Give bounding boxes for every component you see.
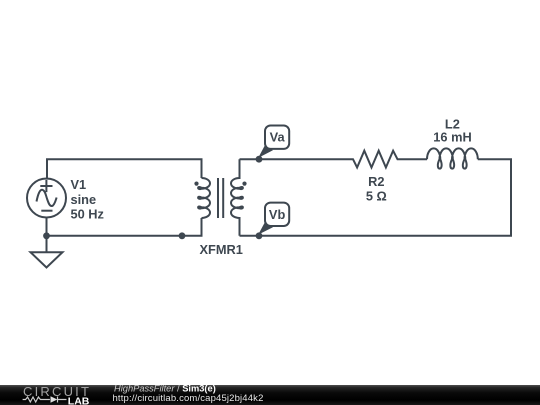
svg-text:16 mH: 16 mH bbox=[433, 130, 471, 145]
svg-text:R2: R2 bbox=[368, 174, 384, 189]
svg-text:LAB: LAB bbox=[68, 395, 90, 405]
svg-text:V1: V1 bbox=[71, 177, 87, 192]
svg-text:http://circuitlab.com/cap45j2b: http://circuitlab.com/cap45j2bj44k2 bbox=[113, 393, 264, 404]
svg-text:Va: Va bbox=[270, 130, 286, 145]
svg-text:5 Ω: 5 Ω bbox=[366, 189, 387, 204]
svg-text:sine: sine bbox=[71, 192, 97, 207]
svg-text:50 Hz: 50 Hz bbox=[71, 207, 104, 222]
svg-text:Vb: Vb bbox=[269, 207, 286, 222]
svg-text:XFMR1: XFMR1 bbox=[200, 242, 243, 257]
svg-text:HighPassFilter / Sim3(e): HighPassFilter / Sim3(e) bbox=[114, 383, 216, 393]
